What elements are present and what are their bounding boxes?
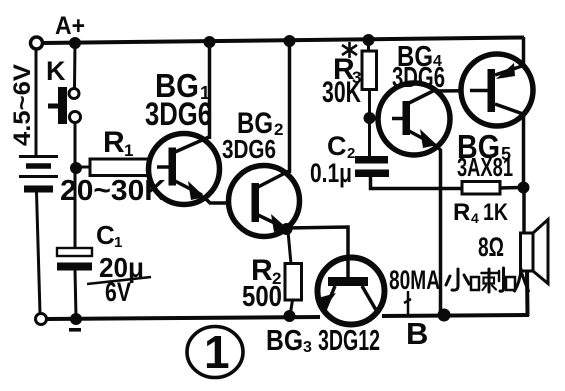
svg-text:K: K	[46, 56, 66, 86]
svg-text:8Ω: 8Ω	[478, 232, 504, 262]
svg-text:1: 1	[114, 234, 122, 251]
svg-text:6V: 6V	[105, 277, 131, 307]
svg-text:0.1μ: 0.1μ	[310, 158, 352, 188]
svg-text:C: C	[96, 220, 115, 250]
svg-text:80MA: 80MA	[389, 265, 440, 295]
svg-text:4: 4	[471, 210, 479, 226]
svg-text:C: C	[327, 131, 347, 161]
svg-text:3DG6: 3DG6	[145, 96, 212, 132]
svg-text:20~30K: 20~30K	[60, 175, 166, 207]
svg-text:A+: A+	[55, 12, 85, 40]
svg-text:30K: 30K	[322, 76, 361, 109]
svg-text:R: R	[453, 199, 470, 226]
svg-text:1: 1	[124, 141, 133, 160]
svg-text:1K: 1K	[483, 199, 509, 226]
svg-text:BG: BG	[266, 325, 303, 357]
svg-text:3DG6: 3DG6	[392, 62, 445, 94]
svg-text:4.5~6V: 4.5~6V	[9, 64, 36, 146]
svg-text:3AX81: 3AX81	[457, 152, 513, 182]
svg-text:500: 500	[242, 281, 282, 313]
svg-text:R: R	[103, 126, 125, 159]
svg-text:B: B	[406, 316, 428, 351]
svg-text:3DG12: 3DG12	[318, 325, 380, 357]
svg-text:3: 3	[303, 339, 312, 356]
svg-text:3DG6: 3DG6	[222, 134, 276, 164]
svg-text:1: 1	[204, 326, 230, 378]
